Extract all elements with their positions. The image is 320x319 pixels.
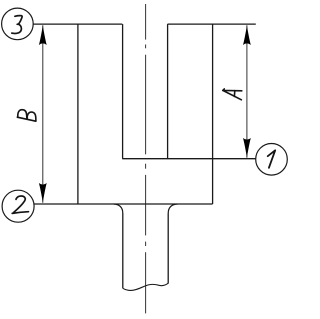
dim A arrow down xyxy=(243,138,251,157)
balloon 3 xyxy=(2,8,34,40)
dimension line B xyxy=(42,25,44,203)
stem left fillet xyxy=(114,204,123,214)
dim B arrow up xyxy=(39,26,47,45)
balloon 2 xyxy=(2,190,34,222)
stem right edge xyxy=(167,214,169,284)
break line (wavy) xyxy=(123,283,168,290)
dim B arrow down xyxy=(39,183,47,202)
right wall inner edge xyxy=(167,24,169,159)
right wall outer edge xyxy=(212,24,214,204)
label A xyxy=(223,89,242,100)
balloon 1 xyxy=(256,144,288,176)
left wall inner edge xyxy=(122,24,124,159)
stem left edge xyxy=(122,214,124,289)
label B xyxy=(17,110,36,122)
stem right fillet xyxy=(168,204,177,214)
center line xyxy=(145,4,147,313)
left wall outer edge xyxy=(77,24,79,204)
top edge right segment (extension for dim A) xyxy=(168,23,256,25)
hole bottom edge (leader of balloon 1) xyxy=(122,158,256,160)
dim A arrow up xyxy=(243,26,251,45)
top edge left segment (leader of balloon 3) xyxy=(33,23,122,25)
dimension line A xyxy=(246,25,248,158)
flange bottom edge (leader of balloon 2) xyxy=(34,203,212,205)
